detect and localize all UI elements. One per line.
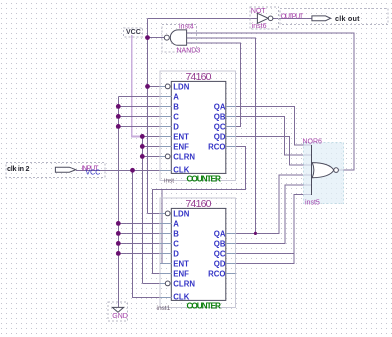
U2 pin RCO <box>226 272 236 274</box>
svg-text:QB: QB <box>214 113 226 122</box>
junction node: GND to B U2 <box>116 231 121 236</box>
svg-text:QB: QB <box>214 240 226 249</box>
svg-text:QA: QA <box>214 103 226 112</box>
svg-text:NOT: NOT <box>251 8 267 15</box>
wire: QD U1 to NOR input 3 <box>236 136 312 165</box>
U1 pin ENF <box>160 145 171 147</box>
svg-text:VCC: VCC <box>126 29 141 36</box>
wire: to CLRN U1 <box>142 155 165 157</box>
wire: clk input net to CLK U1 <box>76 169 172 171</box>
wire: to CLRN U2 <box>142 282 165 284</box>
svg-text:NAND3: NAND3 <box>177 47 201 54</box>
wire: QD U2 to NOR input 6 <box>236 195 312 264</box>
wire: branch to ENT U2 <box>162 189 171 263</box>
junction node: GND to C U1 <box>116 114 121 119</box>
svg-text:QC: QC <box>214 123 226 132</box>
svg-text:VCC: VCC <box>86 170 101 177</box>
wire: NAND input 2 net down to QA U2 row <box>187 38 255 233</box>
selection box around NOR gate U3 <box>304 143 344 204</box>
wire: to ENT U1 <box>142 135 171 137</box>
svg-text:QC: QC <box>214 250 226 259</box>
svg-text:RCO: RCO <box>208 143 225 152</box>
wire: C of U1 <box>118 115 171 117</box>
svg-text:D: D <box>173 123 179 132</box>
U2 pin ENF <box>160 272 171 274</box>
junction node: GND to A U2 <box>116 221 121 226</box>
wire: QC U2 joining QD riser <box>236 252 294 254</box>
wire: VCC net vertical (light) <box>132 35 143 136</box>
wire: junction to LDN of U1 <box>148 85 166 87</box>
U2 pin LDN <box>160 212 165 214</box>
junction node: NAND in2 / QA U2 <box>254 232 257 235</box>
U1 pin QB <box>226 115 236 117</box>
svg-text:ENF: ENF <box>173 143 189 152</box>
svg-text:NOR6: NOR6 <box>303 138 323 145</box>
U1 pin CLRN <box>160 155 165 157</box>
U2 pin A <box>160 222 171 224</box>
junction node: GND to C U2 <box>116 241 121 246</box>
svg-text:CLRN: CLRN <box>173 153 195 162</box>
svg-text:inst1: inst1 <box>157 305 171 312</box>
U2 pin QB <box>226 242 236 244</box>
wire: NAND output to junction node N1 <box>148 37 165 39</box>
svg-text:COUNTER: COUNTER <box>187 300 222 310</box>
U2 pin CLRN <box>160 282 165 284</box>
svg-text:LDN: LDN <box>173 210 189 219</box>
U1 pin CLK <box>160 169 171 171</box>
svg-text:B: B <box>173 230 179 239</box>
U1 pin ENT <box>160 135 171 137</box>
wire: to ENF U1 <box>142 145 171 147</box>
wire: RCO U1 down to ENF U2 <box>152 146 245 273</box>
wire: QC U1 up to NAND input 3 <box>187 43 240 126</box>
U1 pin RCO <box>226 145 236 147</box>
svg-text:inst6: inst6 <box>252 23 267 30</box>
wire: corner to LDN of U2 <box>148 212 166 214</box>
svg-text:A: A <box>173 220 179 229</box>
wire: vertical net NAND out / LDN bus x=147.5 <box>147 18 149 213</box>
svg-text:A: A <box>173 93 179 102</box>
svg-text:inst4: inst4 <box>179 24 194 31</box>
svg-text:C: C <box>173 113 179 122</box>
svg-text:C: C <box>173 240 179 249</box>
nand gate U4 NAND3 (mirrored) <box>162 24 200 55</box>
U2 pin C <box>160 242 171 244</box>
svg-text:ENT: ENT <box>173 260 189 269</box>
U1 pin QA <box>226 105 236 107</box>
wire: QA U2 to NOR input 4 <box>236 175 312 233</box>
wire: clk net down to CLK U2 <box>133 170 172 297</box>
wire: QB U1 to NOR input 2 <box>236 116 312 155</box>
U2 pin D <box>160 252 171 254</box>
svg-text:QD: QD <box>214 133 226 142</box>
svg-text:ENT: ENT <box>173 133 189 142</box>
U1 pin C <box>160 115 171 117</box>
svg-text:CLRN: CLRN <box>173 280 195 289</box>
U2 pin B <box>160 232 171 234</box>
svg-text:clk out: clk out <box>335 14 360 23</box>
wire: QA U1 to NOR input 1 <box>236 106 312 145</box>
junction node: GND to D U1 <box>116 124 121 129</box>
nor gate U3 NOR6 <box>303 138 339 206</box>
U1 pin A <box>160 95 171 97</box>
not gate U5 NOT <box>250 7 279 30</box>
svg-text:QA: QA <box>214 230 226 239</box>
wire: B of U1 <box>118 105 171 107</box>
svg-text:B: B <box>173 103 179 112</box>
junction node: VCC to CLRN U1 <box>140 154 145 159</box>
U1 pin LDN <box>160 85 165 87</box>
junction node: NAND output / NOT feed <box>145 35 150 40</box>
svg-text:D: D <box>173 250 179 259</box>
U1 pin QD <box>226 135 236 137</box>
wire: NOT output to output pin clk_out <box>273 17 312 19</box>
wire: B of U2 <box>118 232 171 234</box>
svg-text:COUNTER: COUNTER <box>187 173 222 183</box>
counter U1 74160 <box>160 71 236 185</box>
input pin clk_in_2 <box>6 163 105 178</box>
junction node: GND to B U1 <box>116 104 121 109</box>
junction node: VCC to ENT U1 <box>140 134 145 139</box>
output pin clk_out <box>280 9 388 25</box>
svg-text:QD: QD <box>214 260 226 269</box>
wire: A of U1 <box>118 95 171 97</box>
wire: QB U2 to NOR input 5 <box>236 185 312 243</box>
ground symbol GND <box>108 302 128 321</box>
counter U2 74160 <box>157 198 236 312</box>
U2 pin ENT <box>160 262 171 264</box>
U3 input bar <box>311 145 313 195</box>
svg-text:inst5: inst5 <box>305 199 320 206</box>
wire: VCC chain vertical to ENT/ENF/CLRN <box>141 136 143 283</box>
svg-text:clk in 2: clk in 2 <box>7 164 30 173</box>
U1 pin B <box>160 105 171 107</box>
svg-text:ENF: ENF <box>173 270 189 279</box>
wire: D of U2 <box>118 252 171 254</box>
svg-text:inst: inst <box>164 178 174 185</box>
U2 pin QC <box>226 252 236 254</box>
U2 pin QD <box>226 262 236 264</box>
junction node: VCC to ENF U1 <box>140 144 145 149</box>
svg-text:LDN: LDN <box>173 83 189 92</box>
U1 pin D <box>160 125 171 127</box>
wire: D of U1 <box>118 125 171 127</box>
junction node: GND to D U2 <box>116 251 121 256</box>
wire: top net to NOT input <box>148 17 258 19</box>
U2 pin QA <box>226 232 236 234</box>
wire: GND net vertical x=118.3 <box>117 96 119 307</box>
svg-text:RCO: RCO <box>208 270 225 279</box>
svg-text:OUTPUT: OUTPUT <box>281 14 304 21</box>
power symbol VCC <box>124 28 143 37</box>
wire: C of U2 <box>118 242 171 244</box>
wire: A of U2 <box>118 222 171 224</box>
junction node: clk input to CLK U1/U2 <box>130 168 135 173</box>
U1 pin QC <box>226 125 236 127</box>
junction node: LDN U1 tap <box>145 84 150 89</box>
U2 pin CLK <box>160 296 171 298</box>
wire: NOR output up and over to NAND input 1 <box>187 33 354 170</box>
svg-text:GND: GND <box>112 313 128 320</box>
